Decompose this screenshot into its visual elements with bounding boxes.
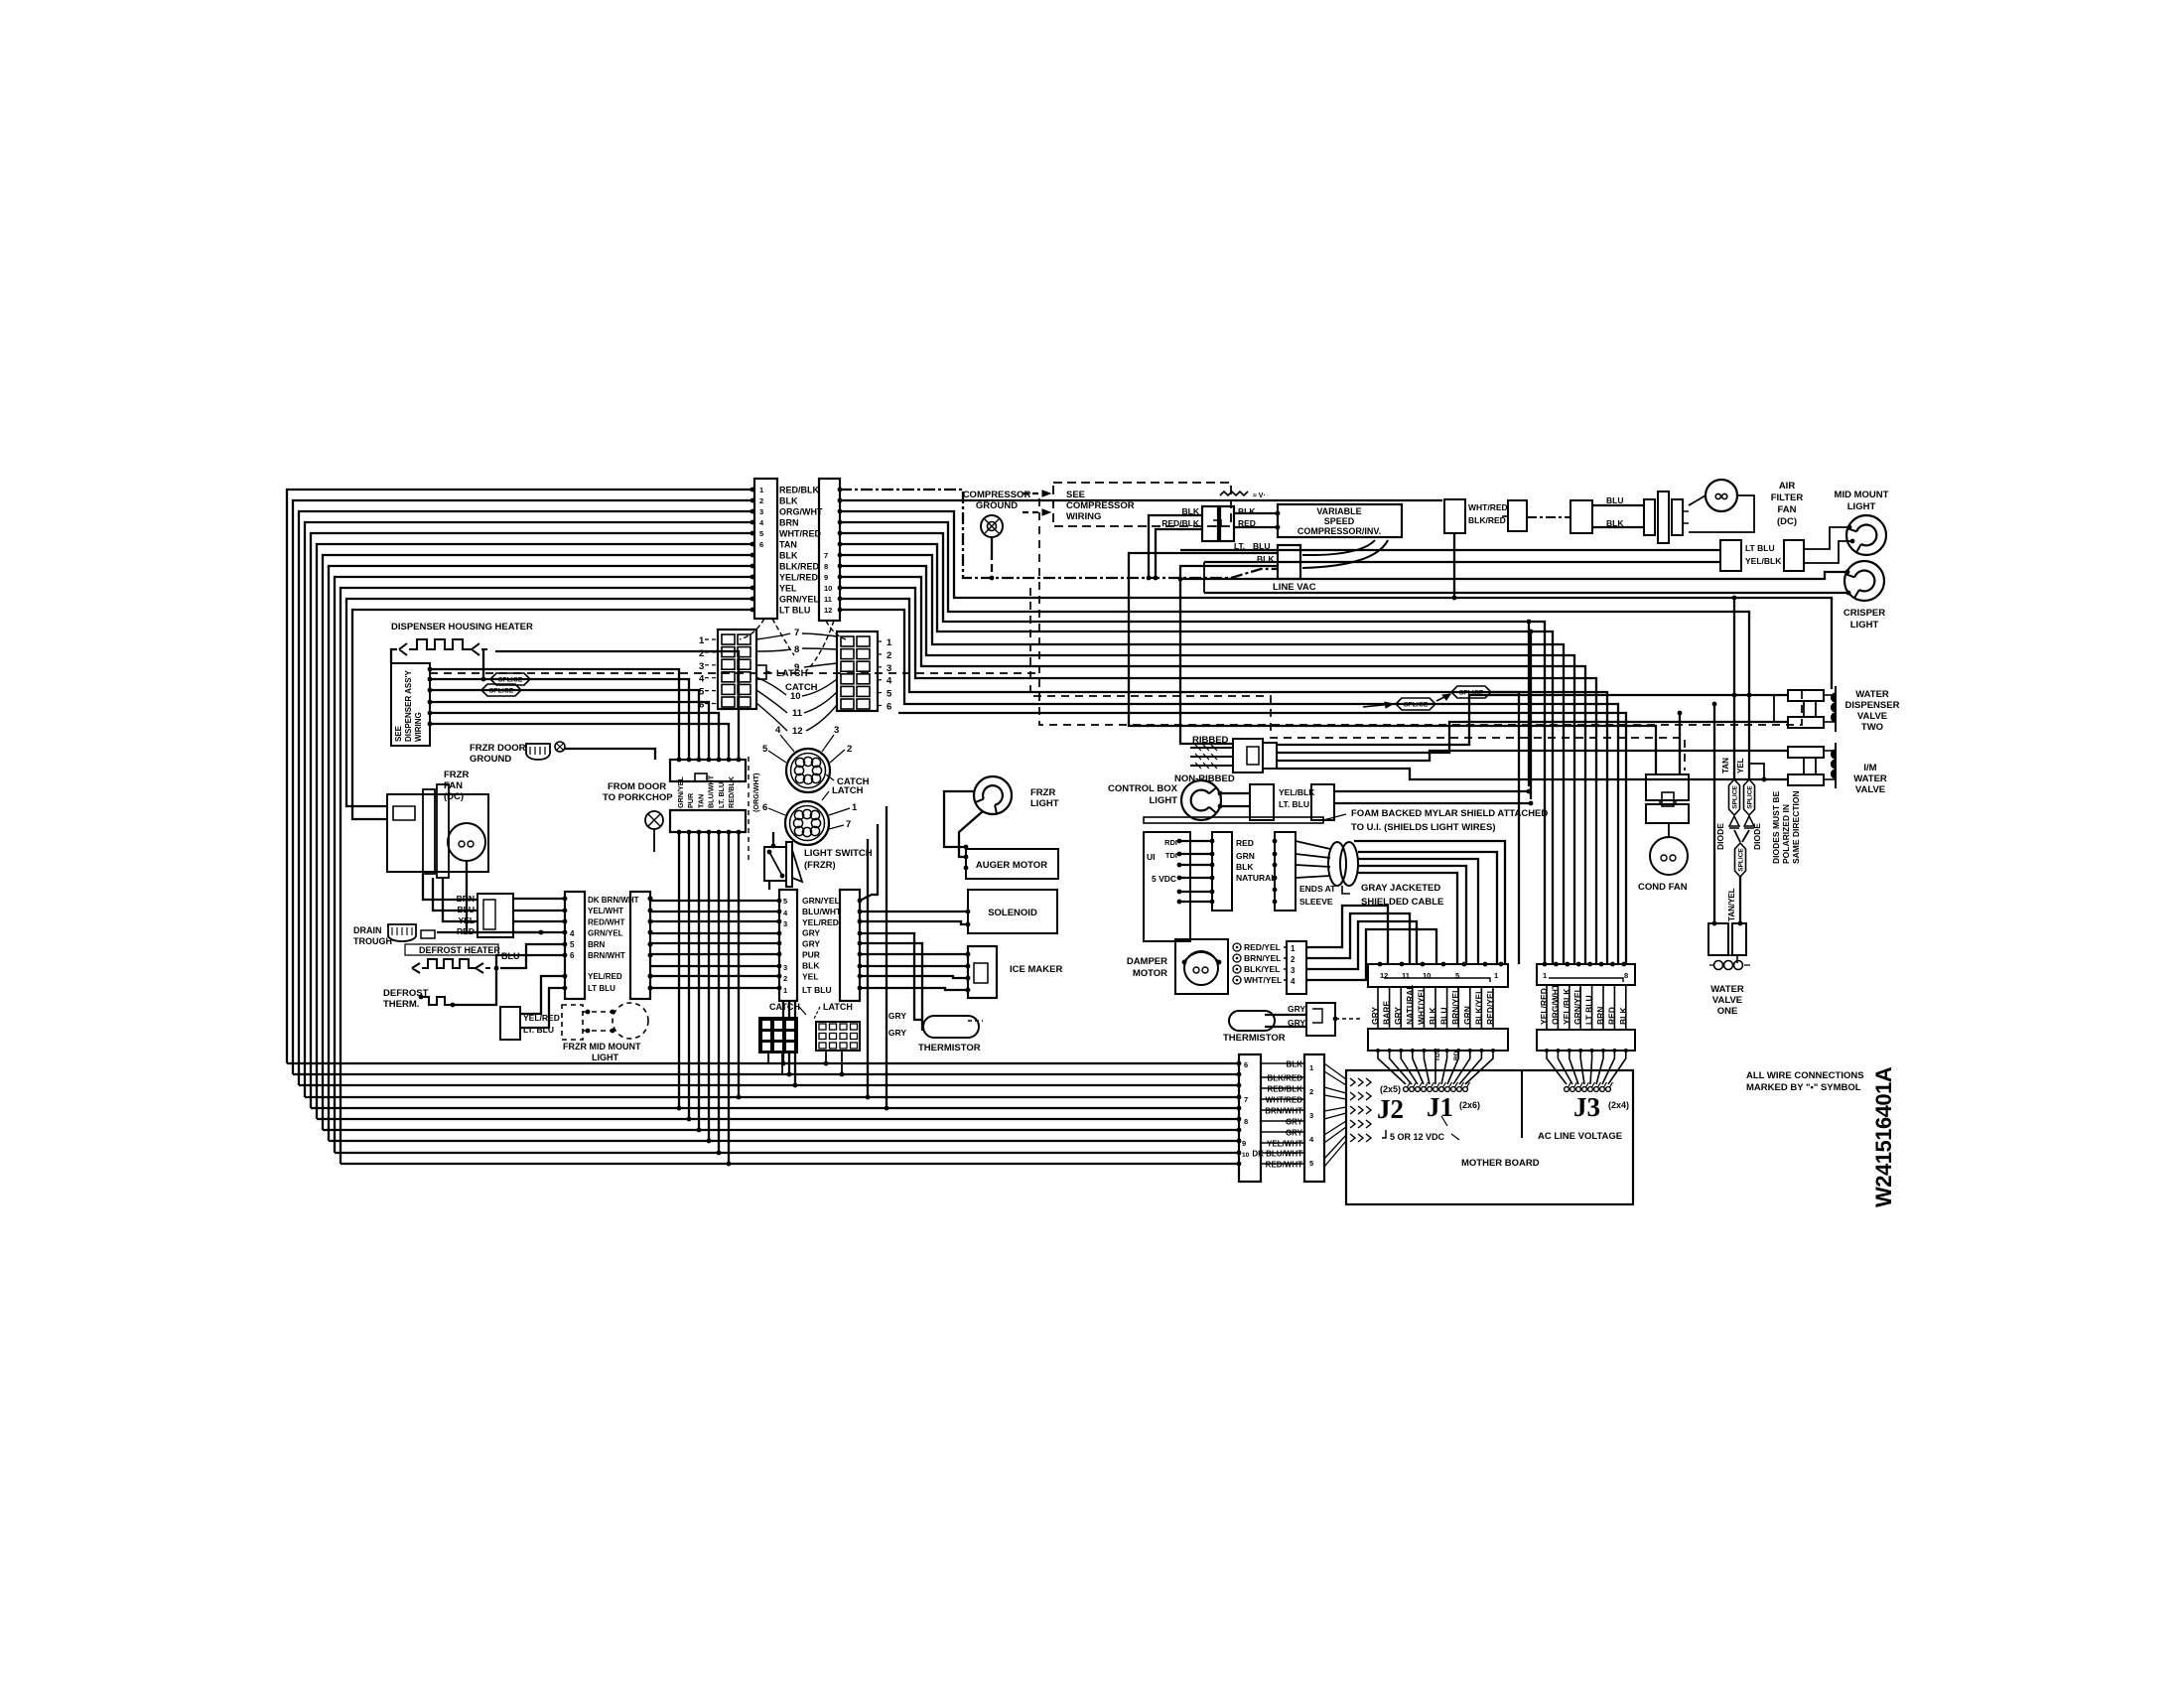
svg-text:TO U.I. (SHIELDS LIGHT WIRES): TO U.I. (SHIELDS LIGHT WIRES) — [1351, 822, 1496, 833]
J3 harness connector upper bar — [1537, 964, 1635, 985]
pins on D2 right side — [648, 897, 653, 902]
curved leads grid A to numbers — [756, 633, 790, 639]
svg-text:YEL: YEL — [458, 915, 475, 925]
wires diode chain — [1733, 598, 1735, 779]
condenser fan connector — [1646, 774, 1689, 800]
dispenser housing heater element (zigzag) — [399, 639, 487, 655]
diode symbols — [1729, 816, 1739, 828]
svg-text:1: 1 — [887, 637, 892, 648]
svg-text:CATCH: CATCH — [769, 1002, 800, 1012]
svg-text:6: 6 — [1244, 1060, 1248, 1069]
ribbed cable connector — [1233, 739, 1263, 772]
wires control box light to connector — [1220, 792, 1250, 794]
UI output pins and wires — [1177, 839, 1182, 844]
svg-text:GRAY JACKETED: GRAY JACKETED — [1361, 883, 1440, 894]
svg-text:YEL: YEL — [802, 971, 819, 981]
svg-text:GRY: GRY — [802, 939, 820, 949]
svg-text:5 VDC: 5 VDC — [1152, 874, 1176, 884]
J1 fan-in wires to motherboard header — [1378, 1051, 1406, 1084]
svg-text:YEL: YEL — [779, 584, 797, 594]
svg-text:SPLICE: SPLICE — [489, 688, 514, 695]
svg-text:FAN: FAN — [1778, 504, 1797, 515]
ice maker connector bar — [968, 946, 997, 998]
svg-text:GRN: GRN — [1236, 851, 1255, 861]
wire bus - bottom harness 10 lines to motherboard feed connector — [287, 1062, 1239, 1064]
svg-text:BLK/YEL: BLK/YEL — [1244, 964, 1280, 974]
svg-text:SPLICE: SPLICE — [1731, 785, 1738, 809]
svg-text:LIGHT: LIGHT — [1030, 798, 1059, 809]
drain trough symbol — [388, 924, 416, 941]
svg-text:DK BLU/WHT: DK BLU/WHT — [1252, 1150, 1302, 1159]
svg-text:SPLICE: SPLICE — [498, 677, 523, 684]
svg-text:LIGHT: LIGHT — [1847, 501, 1876, 512]
light switch (frzr) — [764, 847, 786, 881]
splice 1 — [1396, 698, 1435, 710]
wire defrost heater to D1 — [500, 944, 565, 968]
wires E2 to thermistor — [860, 933, 922, 1020]
svg-text:WATER: WATER — [1710, 984, 1744, 995]
long verticals from switch area to bus — [867, 839, 869, 1097]
thermistor (fresh food) capsule — [1229, 1011, 1275, 1031]
svg-text:10: 10 — [1242, 1152, 1250, 1159]
svg-text:GRY: GRY — [888, 1028, 906, 1038]
J2 header pins on motherboard — [1350, 1078, 1355, 1086]
svg-text:YEL/RED: YEL/RED — [802, 917, 839, 927]
svg-text:6: 6 — [759, 540, 763, 549]
thermistor connector output — [1335, 1018, 1360, 1020]
svg-text:2: 2 — [1309, 1087, 1313, 1096]
svg-text:BLU/WHT: BLU/WHT — [802, 907, 842, 916]
svg-text:COMPRESSOR/INV.: COMPRESSOR/INV. — [1297, 526, 1381, 536]
wire harness nest - 12 loop wires from connector P1 around left side — [287, 490, 752, 1063]
svg-text:GROUND: GROUND — [976, 500, 1018, 511]
svg-text:LT BLU: LT BLU — [1745, 543, 1775, 553]
svg-text:VALVE: VALVE — [1855, 784, 1885, 795]
latch grid connector D — [816, 1022, 860, 1051]
svg-text:GRY: GRY — [802, 928, 820, 938]
dispenser box output wires to door connector — [430, 669, 679, 760]
svg-text:SEE: SEE — [394, 725, 403, 742]
wire - water valve one feed riser — [1713, 704, 1715, 923]
svg-text:TROUGH: TROUGH — [353, 936, 392, 946]
svg-text:DRAIN: DRAIN — [353, 925, 382, 935]
wire from pin 7 of lower housing down — [738, 832, 740, 1097]
svg-text:BLK: BLK — [779, 496, 798, 506]
connector P2 (12-pin, right) — [819, 479, 840, 621]
wire - compressor connector to variable speed box — [1234, 512, 1278, 514]
UI lead connector bar — [1212, 832, 1232, 911]
wires GRN/YEL and LT BLU of nest feeding freezer fan — [346, 599, 752, 806]
freezer connector D1 (left bar) — [565, 892, 585, 999]
svg-text:MOTOR: MOTOR — [1133, 968, 1167, 979]
round connector (8-pin) lower — [785, 801, 829, 845]
wire - line vac BLK feed — [1180, 566, 1278, 744]
svg-text:AC LINE VOLTAGE: AC LINE VOLTAGE — [1538, 1131, 1622, 1142]
motherboard feed connector B1 — [1239, 1054, 1261, 1182]
svg-text:THERMISTOR: THERMISTOR — [918, 1043, 981, 1053]
svg-text:AIR: AIR — [1779, 481, 1796, 491]
J1 harness connector upper bar — [1368, 964, 1508, 987]
svg-text:YEL/RED: YEL/RED — [588, 972, 622, 981]
svg-text:TO PORKCHOP: TO PORKCHOP — [603, 792, 673, 803]
svg-text:1: 1 — [1309, 1063, 1313, 1072]
thermistor connector — [1306, 1003, 1335, 1036]
svg-text:SPLICE: SPLICE — [1737, 848, 1744, 872]
svg-text:LIGHT: LIGHT — [1150, 795, 1178, 806]
wires light switch to connectors — [772, 832, 774, 846]
svg-text:MID MOUNT: MID MOUNT — [1835, 490, 1889, 500]
gray jacketed shielded cable (ellipses) — [1328, 842, 1346, 886]
control box light — [1181, 780, 1221, 820]
air filter fan loop wire — [1689, 495, 1706, 505]
svg-text:YEL/WHT: YEL/WHT — [1267, 1140, 1302, 1149]
svg-text:MARKED BY "•" SYMBOL: MARKED BY "•" SYMBOL — [1746, 1082, 1861, 1093]
solenoid box — [968, 890, 1057, 933]
svg-text:CONTROL BOX: CONTROL BOX — [1108, 783, 1178, 794]
shielded cable connector bar — [1275, 832, 1296, 911]
motherboard feed connector B2 — [1304, 1054, 1324, 1182]
svg-text:CRISPER: CRISPER — [1843, 608, 1885, 619]
svg-text:(ORG/WHT): (ORG/WHT) — [751, 772, 760, 812]
freezer light — [974, 776, 1012, 814]
wires from bar into cable — [1296, 841, 1330, 849]
motherboard box — [1346, 1070, 1633, 1204]
svg-text:TWO: TWO — [1861, 722, 1883, 733]
wire - WHT/RED run to J3 — [840, 533, 1545, 964]
svg-text:9: 9 — [824, 573, 828, 582]
svg-text:1: 1 — [852, 802, 858, 813]
svg-text:6: 6 — [570, 951, 575, 960]
svg-text:BRN: BRN — [457, 894, 475, 904]
svg-text:FAN: FAN — [444, 780, 463, 791]
svg-text:COND FAN: COND FAN — [1638, 882, 1688, 893]
svg-text:POLARIZED IN: POLARIZED IN — [1781, 804, 1791, 864]
water valve two coil — [1835, 686, 1837, 732]
thermistor leads — [1265, 1014, 1306, 1016]
curved drop wires from P1/P2 to grid connectors — [740, 619, 764, 639]
porkchop ground symbol — [645, 811, 663, 829]
svg-text:LT. BLU: LT. BLU — [1279, 799, 1309, 809]
mid mount light — [1846, 515, 1886, 555]
svg-text:3: 3 — [1291, 966, 1296, 975]
svg-text:≈ V·: ≈ V· — [1253, 492, 1266, 499]
J3 harness connector lower bar — [1537, 1030, 1635, 1051]
splice on dispenser wire 3 — [481, 684, 521, 696]
svg-text:4: 4 — [699, 674, 705, 685]
wires door connector D2 to porkchop connector E1 — [650, 900, 779, 902]
svg-text:DAMPER: DAMPER — [1127, 956, 1167, 967]
svg-text:BLK/RED: BLK/RED — [1267, 1074, 1302, 1083]
svg-text:THERM.: THERM. — [383, 999, 419, 1010]
wires thermistor leads — [968, 1020, 983, 1022]
svg-text:RED/BLK: RED/BLK — [1161, 518, 1200, 528]
svg-text:SAME DIRECTION: SAME DIRECTION — [1791, 790, 1801, 864]
svg-text:WATER: WATER — [1853, 773, 1887, 784]
svg-text:TAN: TAN — [1721, 758, 1730, 773]
svg-text:(2x6): (2x6) — [1459, 1100, 1480, 1110]
wires fan connector to connector D1 — [513, 898, 565, 900]
condenser fan motor — [1650, 837, 1688, 875]
wire - cond fan feed riser — [1679, 713, 1681, 774]
wire - door ground to connector — [565, 749, 655, 760]
svg-text:LT BLU: LT BLU — [802, 985, 832, 995]
svg-text:2: 2 — [847, 744, 852, 755]
wire - LT BLU run to water valve one feed — [840, 610, 1618, 964]
svg-text:DIODE: DIODE — [1715, 823, 1725, 850]
dashed harness boundary horizontal upper — [430, 672, 1037, 674]
wire E2 row1 riser — [860, 824, 878, 901]
svg-text:LT BLU: LT BLU — [779, 606, 810, 616]
svg-text:(2x4): (2x4) — [1608, 1100, 1629, 1110]
svg-text:11: 11 — [792, 708, 803, 719]
svg-text:COMPRESSOR: COMPRESSOR — [1066, 500, 1135, 511]
svg-text:GRY: GRY — [888, 1011, 906, 1021]
damper motor box — [1175, 939, 1228, 994]
svg-text:BLU: BLU — [458, 905, 475, 914]
svg-text:YEL/WHT: YEL/WHT — [588, 907, 623, 915]
svg-text:2: 2 — [1291, 955, 1296, 964]
svg-text:1: 1 — [783, 986, 787, 995]
wire - crisper light feed upper — [1180, 572, 1847, 579]
wire - heater left lead down to dispenser box — [391, 649, 397, 663]
crisper light — [1844, 561, 1884, 601]
svg-text:GRY: GRY — [1286, 1129, 1303, 1138]
see dispenser ass'y wiring box — [391, 663, 430, 746]
svg-text:5: 5 — [783, 897, 787, 906]
svg-text:ONE: ONE — [1717, 1006, 1738, 1017]
svg-text:LIGHT SWITCH: LIGHT SWITCH — [804, 848, 873, 859]
wire - ORG/WHT run to water dispenser valve two — [840, 511, 1832, 689]
svg-text:TAN/YEL: TAN/YEL — [1727, 888, 1736, 921]
dashed leader arrows into compressor wiring box — [1023, 492, 1050, 494]
door connector lower housing — [670, 810, 746, 832]
svg-text:6: 6 — [762, 802, 767, 813]
svg-text:ICE MAKER: ICE MAKER — [1010, 964, 1062, 975]
svg-text:FROM DOOR: FROM DOOR — [608, 781, 666, 792]
svg-text:WHT/RED: WHT/RED — [779, 529, 821, 539]
water dispenser valve two — [1788, 690, 1824, 701]
svg-text:(FRZR): (FRZR) — [804, 860, 836, 871]
svg-text:RED/BLK: RED/BLK — [727, 775, 736, 808]
svg-text:RD: RD — [1453, 1051, 1460, 1060]
freezer fan wires to connector — [423, 874, 478, 900]
svg-text:RED/BLK: RED/BLK — [1267, 1085, 1302, 1094]
wire - BRN run to diode splice YEL — [840, 522, 1749, 779]
svg-text:RDI: RDI — [1164, 838, 1177, 847]
svg-text:WHT/RED: WHT/RED — [1468, 502, 1508, 512]
svg-text:2: 2 — [759, 496, 763, 505]
svg-text:BLU/WHT: BLU/WHT — [707, 774, 716, 808]
svg-text:RIBBED: RIBBED — [1192, 735, 1229, 746]
svg-text:VARIABLE: VARIABLE — [1316, 506, 1361, 516]
defrost thermostat symbol — [421, 997, 453, 1005]
svg-text:RED: RED — [1236, 838, 1254, 848]
dashed harness boundary mid — [1030, 588, 1685, 771]
svg-text:5 OR 12 VDC: 5 OR 12 VDC — [1390, 1132, 1445, 1142]
wire - YEL run to J3 — [840, 588, 1596, 964]
svg-text:LIGHT: LIGHT — [1850, 620, 1879, 631]
wires to fan — [1592, 504, 1644, 506]
svg-text:4: 4 — [1291, 977, 1296, 986]
svg-text:SPLICE: SPLICE — [1746, 785, 1753, 809]
svg-text:(2x5): (2x5) — [1380, 1084, 1401, 1094]
svg-text:2: 2 — [699, 648, 704, 659]
svg-text:7: 7 — [846, 819, 851, 830]
svg-text:5: 5 — [570, 940, 575, 949]
svg-text:DIODES MUST BE: DIODES MUST BE — [1771, 790, 1781, 864]
svg-text:GRY: GRY — [1288, 1004, 1305, 1014]
wire splice2 output to J3 bundle — [1491, 692, 1519, 964]
wires B1 to B2 — [1261, 1062, 1304, 1064]
air filter fan bulb — [1706, 480, 1737, 511]
svg-text:3: 3 — [759, 507, 763, 516]
svg-text:5: 5 — [762, 744, 768, 755]
air filter fan connector 3 — [1570, 500, 1592, 533]
svg-text:(DC): (DC) — [444, 791, 464, 802]
J1 harness connector lower bar — [1368, 1029, 1508, 1051]
round connector (8-pin) upper — [786, 749, 830, 792]
J2 pin fan from B2 — [1324, 1063, 1346, 1079]
svg-text:BLK: BLK — [802, 960, 820, 970]
svg-text:SPEED: SPEED — [1324, 516, 1355, 526]
svg-text:PUR: PUR — [686, 792, 695, 808]
latch tab on grid connector A — [756, 665, 766, 679]
ribbed connector outputs — [1277, 695, 1788, 745]
svg-text:LATCH: LATCH — [823, 1002, 853, 1012]
svg-text:FRZR MID MOUNT: FRZR MID MOUNT — [563, 1042, 641, 1052]
thermistor (freezer) capsule — [923, 1016, 979, 1038]
freezer fan assembly — [387, 794, 488, 872]
svg-text:NATURAL: NATURAL — [1236, 873, 1276, 883]
svg-text:ALL WIRE CONNECTIONS: ALL WIRE CONNECTIONS — [1746, 1070, 1864, 1081]
svg-text:8: 8 — [824, 562, 828, 571]
svg-text:J2: J2 — [1377, 1094, 1404, 1124]
wires from lower door housing down to bus — [678, 832, 680, 1108]
wires feeding lt blu / yel blk connector — [1180, 549, 1720, 551]
svg-text:SLEEVE: SLEEVE — [1299, 897, 1333, 907]
mylar shield bar — [1144, 817, 1323, 823]
svg-text:1: 1 — [759, 486, 763, 494]
svg-text:DIODE: DIODE — [1752, 823, 1762, 850]
svg-text:VALVE: VALVE — [1857, 711, 1887, 722]
svg-text:COMPRESSOR: COMPRESSOR — [963, 490, 1031, 500]
svg-text:10: 10 — [790, 691, 801, 702]
svg-text:TDI: TDI — [1165, 851, 1177, 860]
svg-text:VALVE: VALVE — [1712, 995, 1742, 1006]
svg-text:WIRING: WIRING — [414, 712, 423, 742]
svg-text:YEL: YEL — [1736, 758, 1745, 773]
svg-text:9: 9 — [794, 662, 799, 673]
small heater squiggle above compressor — [1220, 491, 1248, 495]
fan lead connector — [478, 894, 513, 937]
dashed harness boundary vertical — [1039, 498, 1802, 725]
wire - crisper light feed lower — [1204, 592, 1848, 594]
svg-text:RED/WHT: RED/WHT — [588, 917, 624, 926]
svg-text:DISPENSER HOUSING HEATER: DISPENSER HOUSING HEATER — [391, 622, 533, 632]
svg-text:RED/WHT: RED/WHT — [1266, 1161, 1302, 1170]
wires E2 to solenoid — [860, 911, 968, 912]
user interface (UI) box — [1144, 832, 1190, 941]
svg-text:RED/BLK: RED/BLK — [779, 486, 819, 495]
svg-text:BLK: BLK — [1238, 506, 1256, 516]
auger motor box — [966, 849, 1058, 879]
wires freezer light — [944, 791, 974, 847]
wire - heater feed from door connector pin 7 — [495, 651, 739, 760]
wire - BLK/RED run to J3 — [840, 566, 1574, 964]
i/m water valve — [1788, 747, 1824, 758]
svg-text:WHT/YEL: WHT/YEL — [1244, 975, 1282, 985]
svg-text:BLU: BLU — [1606, 495, 1623, 505]
wire - variable speed box to line vac — [1302, 540, 1375, 555]
svg-text:BLK/RED: BLK/RED — [1468, 515, 1506, 525]
connector E1 (left bar) — [779, 890, 797, 1001]
svg-text:AUGER MOTOR: AUGER MOTOR — [976, 860, 1047, 871]
grid connector B (2x6) with pin numbers 1-6 — [837, 631, 878, 711]
J3 header pins on motherboard — [1565, 1087, 1570, 1092]
svg-text:UI: UI — [1147, 852, 1156, 862]
junction dots on valve feeds — [1732, 693, 1737, 698]
wire defrost thermostat to D1 — [453, 955, 565, 1005]
svg-text:LT. BLU: LT. BLU — [717, 782, 726, 808]
svg-text:3: 3 — [887, 663, 891, 674]
svg-text:LINE VAC: LINE VAC — [1273, 582, 1316, 593]
svg-text:DISPENSER: DISPENSER — [1845, 700, 1900, 711]
yel/red lt.blu connector to freezer mid mount light — [500, 1007, 520, 1040]
splice 2 — [1451, 686, 1491, 698]
svg-text:W241516401A: W241516401A — [1871, 1066, 1896, 1207]
lt blu / yel blk connector pair — [1720, 540, 1741, 571]
svg-text:BRN/WHT: BRN/WHT — [1265, 1107, 1302, 1116]
wires E1 bottom to bus — [782, 1001, 784, 1063]
svg-text:12: 12 — [792, 726, 803, 737]
svg-text:I/M: I/M — [1863, 763, 1876, 773]
svg-text:11: 11 — [824, 595, 832, 604]
wire - compressor circuit RED/BLK (dash-dot) — [840, 490, 1278, 578]
defrost heater element (zigzag) — [412, 959, 490, 973]
svg-text:1: 1 — [1494, 971, 1498, 980]
air filter fan connector pair WHT/RED BLK/RED — [1444, 499, 1465, 533]
svg-text:ORG/WHT: ORG/WHT — [779, 507, 823, 517]
svg-text:5: 5 — [887, 689, 892, 700]
junction dot water valve one riser — [1712, 921, 1717, 926]
svg-text:TAN: TAN — [696, 794, 705, 808]
curved leads grid B to numbers — [802, 633, 837, 636]
air filter fan motor stack — [1644, 499, 1655, 535]
svg-text:LATCH: LATCH — [832, 785, 864, 796]
svg-text:GRY: GRY — [1286, 1118, 1303, 1127]
svg-text:3: 3 — [834, 725, 839, 736]
wire to next connector (dash-dot) — [1527, 516, 1570, 518]
line vac connector — [1278, 545, 1300, 579]
svg-text:TAN: TAN — [779, 540, 797, 550]
svg-text:8: 8 — [1624, 971, 1628, 980]
svg-text:2: 2 — [783, 974, 787, 983]
svg-text:BRN: BRN — [588, 940, 606, 949]
svg-text:SEE: SEE — [1066, 490, 1085, 500]
svg-text:J3: J3 — [1573, 1092, 1600, 1122]
damper motor wire labels with dot symbols — [1233, 943, 1241, 951]
svg-text:7: 7 — [794, 628, 799, 638]
svg-text:YEL/RED: YEL/RED — [779, 573, 819, 583]
svg-text:LT BLU: LT BLU — [588, 984, 615, 993]
svg-text:GROUND: GROUND — [470, 754, 511, 765]
svg-text:GRN/YEL: GRN/YEL — [588, 929, 623, 938]
svg-text:SPLICE: SPLICE — [1459, 690, 1484, 697]
svg-text:BRN/YEL: BRN/YEL — [1244, 953, 1281, 963]
freezer door ground symbol — [526, 744, 550, 760]
svg-text:10: 10 — [824, 584, 832, 593]
freezer connector D2 (right bar) — [630, 892, 650, 999]
